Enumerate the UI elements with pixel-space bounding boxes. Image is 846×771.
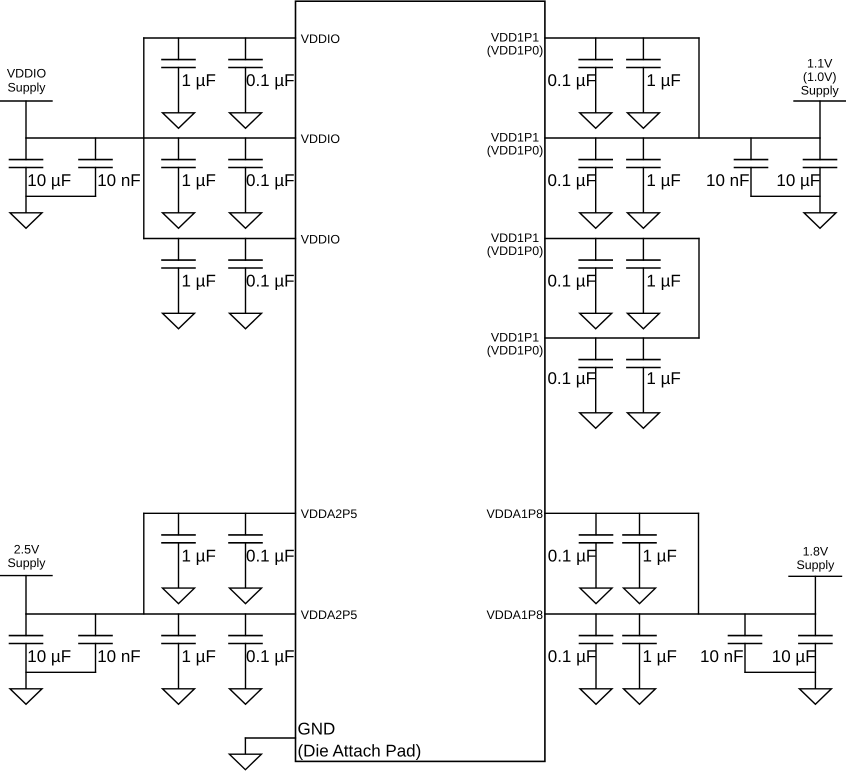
wire VDDIO bus pin 2 <box>26 137 296 139</box>
svg-text:VDD1P1: VDD1P1 <box>491 330 539 344</box>
wire VDD1P1 bus pin 2 <box>545 137 820 139</box>
ground under C17 0.1 uF <box>580 213 612 229</box>
svg-text:(VDD1P0): (VDD1P0) <box>487 344 543 358</box>
svg-text:1 µF: 1 µF <box>646 71 680 90</box>
capacitor C6 0.1 uF <box>229 239 295 314</box>
pin label VDD1P1 (VDD1P0) <box>487 30 543 57</box>
ground under C8 0.1 uF <box>230 588 262 604</box>
ground under C9 1 uF <box>163 689 195 705</box>
svg-text:1 µF: 1 µF <box>643 546 677 565</box>
svg-text:10 nF: 10 nF <box>97 647 140 666</box>
svg-text:0.1 µF: 0.1 µF <box>246 272 295 291</box>
svg-text:VDDA2P5: VDDA2P5 <box>301 608 358 622</box>
svg-text:(VDD1P0): (VDD1P0) <box>487 144 543 158</box>
svg-text:VDDIO: VDDIO <box>301 232 341 246</box>
svg-text:0.1 µF: 0.1 µF <box>246 171 295 190</box>
svg-text:1 µF: 1 µF <box>182 71 216 90</box>
wire 2.5V supply to bus <box>25 576 27 614</box>
ground under C24 10 uF <box>804 213 836 229</box>
capacitor C30 10 uF <box>772 614 832 689</box>
ground under C13 10 uF <box>10 689 42 705</box>
capacitor C10 0.1 uF <box>229 614 295 689</box>
capacitor C22 1 uF <box>627 338 681 413</box>
wire VDDIO supply to bus <box>25 101 27 138</box>
capacitor C7 1 uF <box>162 513 216 588</box>
svg-text:1 µF: 1 µF <box>646 171 680 190</box>
svg-text:1.1V: 1.1V <box>807 56 833 70</box>
wire VDDA1P8 pin 1 <box>545 512 699 514</box>
svg-text:0.1 µF: 0.1 µF <box>547 71 596 90</box>
svg-text:Supply: Supply <box>801 83 840 97</box>
ground under C6 0.1 uF <box>230 313 262 329</box>
capacitor C11 10 uF <box>10 138 72 213</box>
capacitor C14 10 nF <box>79 614 141 672</box>
svg-text:0.1 µF: 0.1 µF <box>246 647 295 666</box>
pin label GND (Die Attach Pad) <box>298 720 422 761</box>
capacitor C27 0.1 uF <box>548 614 613 689</box>
capacitor C19 0.1 uF <box>547 239 612 314</box>
svg-text:VDDA2P5: VDDA2P5 <box>301 507 358 521</box>
svg-text:Supply: Supply <box>8 556 47 570</box>
svg-text:VDDIO: VDDIO <box>301 132 341 146</box>
ground under C5 1 uF <box>163 313 195 329</box>
wire right vertical (VDD1P1 pins 1-2) <box>698 38 700 138</box>
svg-text:10 nF: 10 nF <box>97 171 140 190</box>
capacitor C3 1 uF <box>162 138 216 213</box>
wire 10 nF to 10 uF ground join <box>26 195 96 197</box>
svg-text:1 µF: 1 µF <box>182 546 216 565</box>
svg-text:VDD1P1: VDD1P1 <box>491 130 539 144</box>
wire GND (Die Attach Pad) <box>245 738 295 754</box>
svg-text:10 nF: 10 nF <box>700 647 743 666</box>
ground under C26 1 uF <box>624 588 656 604</box>
ground under C19 0.1 uF <box>580 313 612 329</box>
capacitor C20 1 uF <box>627 239 681 314</box>
wire VDD1P1 pin 4 <box>545 337 699 339</box>
ground under C18 1 uF <box>627 213 659 229</box>
ground under C4 0.1 uF <box>230 213 262 229</box>
svg-text:10 µF: 10 µF <box>776 171 820 190</box>
svg-text:VDDA1P8: VDDA1P8 <box>487 507 544 521</box>
svg-text:10 µF: 10 µF <box>27 171 71 190</box>
capacitor C15 0.1 uF <box>547 38 612 113</box>
svg-text:GND: GND <box>298 720 336 739</box>
svg-text:10 µF: 10 µF <box>27 647 71 666</box>
capacitor C1 1 uF <box>162 38 216 113</box>
svg-text:0.1 µF: 0.1 µF <box>548 647 597 666</box>
ground under C28 1 uF <box>624 689 656 705</box>
wire 10 nF to 10 uF ground join <box>26 671 96 673</box>
svg-text:1 µF: 1 µF <box>646 369 680 388</box>
capacitor C16 1 uF <box>627 38 681 113</box>
svg-text:(VDD1P0): (VDD1P0) <box>487 44 543 58</box>
svg-text:VDD1P1: VDD1P1 <box>491 30 539 44</box>
svg-text:1 µF: 1 µF <box>182 272 216 291</box>
ground under C3 1 uF <box>163 213 195 229</box>
ground under C1 1 uF <box>163 113 195 129</box>
wire right vertical (VDD1P1 pins 3-4) <box>698 239 700 339</box>
1.8V supply rail <box>789 545 842 577</box>
svg-text:0.1 µF: 0.1 µF <box>246 546 295 565</box>
wire VDDIO pin 1 <box>144 37 296 39</box>
ground under C21 0.1 uF <box>580 413 612 429</box>
capacitor C28 1 uF <box>623 614 677 689</box>
svg-text:0.1 µF: 0.1 µF <box>547 369 596 388</box>
ground under C11 10 uF <box>10 213 42 229</box>
capacitor C17 0.1 uF <box>547 138 612 213</box>
capacitor C23 10 nF <box>706 138 767 196</box>
1.1V (1.0V) supply rail <box>794 56 846 101</box>
VDDIO supply rail <box>0 67 52 101</box>
ground under C22 1 uF <box>627 413 659 429</box>
svg-text:0.1 µF: 0.1 µF <box>246 71 295 90</box>
capacitor C5 1 uF <box>162 239 216 314</box>
svg-text:VDD1P1: VDD1P1 <box>491 231 539 245</box>
ground under C20 1 uF <box>627 313 659 329</box>
svg-text:10 nF: 10 nF <box>706 171 749 190</box>
pin label VDD1P1 (VDD1P0) <box>487 330 543 357</box>
pin label VDD1P1 (VDD1P0) <box>487 231 543 258</box>
svg-text:1 µF: 1 µF <box>646 272 680 291</box>
svg-text:(Die Attach Pad): (Die Attach Pad) <box>298 742 422 761</box>
capacitor C24 10 uF <box>776 138 836 213</box>
capacitor C8 0.1 uF <box>229 513 295 588</box>
wire VDDIO pin 3 <box>144 238 296 240</box>
2.5V supply rail <box>0 542 52 575</box>
wire VDD1P1 pin 3 <box>545 238 699 240</box>
IC block U1 <box>296 1 545 761</box>
wire left bracket vertical (VDDIO pins 1-3) <box>143 38 145 239</box>
ground under C30 10 uF <box>799 689 831 705</box>
capacitor C25 0.1 uF <box>548 513 613 588</box>
capacitor C12 10 nF <box>79 138 141 196</box>
wire VDD1P1 pin 1 <box>545 37 699 39</box>
svg-text:(1.0V): (1.0V) <box>803 70 837 84</box>
svg-text:1.8V: 1.8V <box>803 545 829 559</box>
capacitor C2 0.1 uF <box>229 38 295 113</box>
wire VDDA2P5 pin 1 <box>144 512 296 514</box>
ground under C25 0.1 uF <box>580 588 612 604</box>
wire left bracket vertical (VDDA2P5 pins) <box>143 513 145 614</box>
svg-text:1 µF: 1 µF <box>182 171 216 190</box>
svg-text:0.1 µF: 0.1 µF <box>547 272 596 291</box>
svg-text:0.1 µF: 0.1 µF <box>547 171 596 190</box>
capacitor C18 1 uF <box>627 138 681 213</box>
svg-text:0.1 µF: 0.1 µF <box>548 546 597 565</box>
wire VDDA1P8 bus pin 2 <box>545 613 816 615</box>
capacitor C29 10 nF <box>700 614 761 672</box>
ground (Die Attach Pad) <box>229 754 261 770</box>
capacitor C9 1 uF <box>162 614 216 689</box>
svg-text:Supply: Supply <box>8 80 47 94</box>
ground under C27 0.1 uF <box>580 689 612 705</box>
wire 1.1V supply to bus <box>819 101 821 138</box>
wire 1.8V supply to bus <box>814 576 816 614</box>
svg-text:10 µF: 10 µF <box>772 647 816 666</box>
svg-text:1 µF: 1 µF <box>643 647 677 666</box>
svg-text:VDDIO: VDDIO <box>7 67 47 81</box>
capacitor C13 10 uF <box>10 614 72 689</box>
svg-text:1 µF: 1 µF <box>182 647 216 666</box>
pin label VDD1P1 (VDD1P0) <box>487 130 543 157</box>
ground under C2 0.1 uF <box>230 113 262 129</box>
capacitor C4 0.1 uF <box>229 138 295 213</box>
ground under C10 0.1 uF <box>230 689 262 705</box>
capacitor C26 1 uF <box>623 513 677 588</box>
ground under C16 1 uF <box>627 113 659 129</box>
ground under C7 1 uF <box>163 588 195 604</box>
ground under C15 0.1 uF <box>580 113 612 129</box>
capacitor C21 0.1 uF <box>547 338 612 413</box>
svg-text:Supply: Supply <box>796 558 835 572</box>
svg-text:VDDA1P8: VDDA1P8 <box>487 608 544 622</box>
svg-text:(VDD1P0): (VDD1P0) <box>487 244 543 258</box>
wire 10 nF to 10 uF ground join <box>745 671 815 673</box>
svg-text:VDDIO: VDDIO <box>301 32 341 46</box>
wire 10 nF to 10 uF ground join <box>751 195 820 197</box>
wire right vertical (VDDA1P8 pins) <box>698 513 700 614</box>
svg-text:2.5V: 2.5V <box>14 542 40 556</box>
wire VDDA2P5 bus pin 2 <box>26 613 296 615</box>
